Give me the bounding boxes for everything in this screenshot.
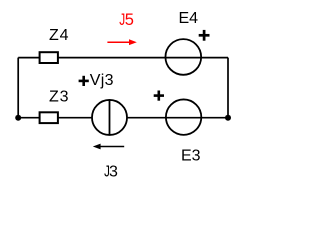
polarity plus of E4 (199, 30, 210, 41)
voltage source E4 (165, 39, 202, 75)
resistor Z4 (40, 52, 58, 63)
wire: right vertical branch (227, 58, 229, 118)
polarity plus of Vj3 (79, 76, 89, 86)
voltage source E3 (165, 99, 202, 134)
current source J3 (92, 100, 127, 135)
node: junction dot right (225, 115, 231, 121)
svg-text:Vj3: Vj3 (90, 72, 114, 89)
svg-text:E3: E3 (181, 147, 201, 164)
wire: top horizontal net (18, 57, 228, 59)
current arrow J5 (107, 39, 136, 45)
svg-text:5: 5 (125, 11, 134, 29)
node: junction dot left (15, 115, 21, 121)
resistor Z3 (40, 112, 58, 123)
current arrow J3 (93, 144, 124, 150)
polarity plus of E3 (154, 91, 164, 101)
wire: left vertical branch (17, 58, 19, 118)
svg-text:E4: E4 (179, 10, 199, 27)
svg-text:Z3: Z3 (49, 89, 69, 106)
svg-text:3: 3 (109, 164, 118, 181)
wire: middle horizontal net (18, 117, 228, 119)
svg-text:Z4: Z4 (49, 27, 69, 44)
